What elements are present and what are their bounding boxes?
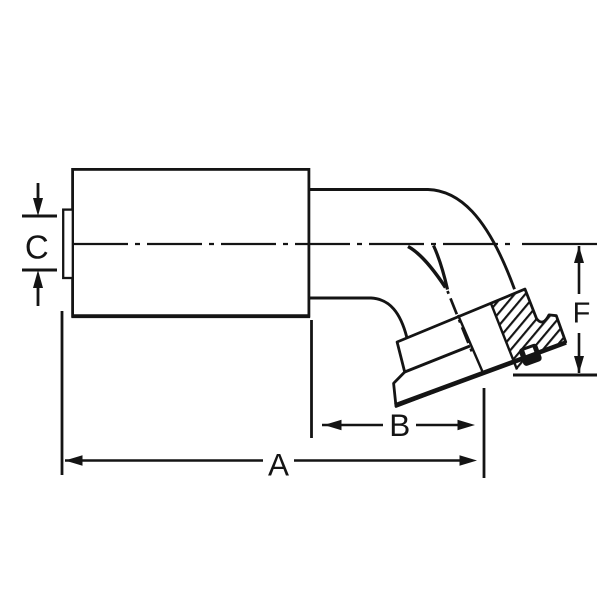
flange assembly outline [394, 289, 566, 406]
B dim extension left [310, 320, 313, 438]
C dim top tick [22, 215, 57, 218]
A dim extension left [61, 311, 64, 475]
body bottom edge [72, 314, 311, 318]
svg-text:C: C [25, 228, 49, 265]
C dim top arrow [37, 183, 40, 200]
C dim bottom arrow [37, 288, 40, 306]
nipple stub [63, 210, 73, 278]
divider line 2 [491, 304, 517, 370]
tube upper contour [309, 190, 515, 290]
flange hatch section [491, 289, 566, 369]
o-ring plug [518, 343, 543, 367]
B dim extension right [483, 388, 486, 478]
svg-text:F: F [573, 298, 591, 330]
divider line 1 [458, 315, 483, 374]
socket bottom edge [405, 346, 470, 372]
centerline [73, 243, 516, 245]
F dim bottom tick [513, 374, 597, 377]
body shell [73, 169, 309, 316]
port axis dash line [448, 291, 473, 352]
svg-text:A: A [268, 447, 289, 483]
bend inner line right [434, 246, 448, 290]
C dim bottom tick [22, 269, 57, 272]
flange face line [395, 343, 566, 406]
A dim line [65, 459, 263, 462]
svg-text:B: B [389, 407, 410, 443]
B dim line [322, 424, 383, 427]
tube lower contour [309, 298, 407, 337]
F dim line [578, 246, 581, 294]
bend inner line left [408, 247, 446, 288]
